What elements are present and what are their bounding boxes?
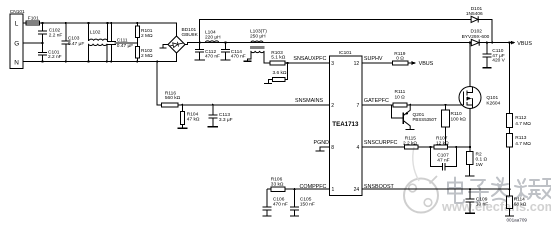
resistor R103	[270, 50, 329, 65]
svg-text:2 MΩ: 2 MΩ	[141, 33, 153, 39]
node VBUS (main)	[509, 41, 532, 47]
svg-text:250 μH: 250 μH	[250, 33, 266, 39]
svg-text:4.7 MΩ: 4.7 MΩ	[515, 141, 531, 147]
wire VBUS divider chain	[509, 43, 511, 114]
capacitor C113	[208, 105, 233, 127]
ground (C110)	[482, 67, 491, 69]
resistor R102	[135, 47, 153, 62]
wire top rail to D101	[200, 19, 471, 42]
svg-text:R113: R113	[515, 135, 526, 141]
svg-text:C103: C103	[68, 35, 80, 41]
svg-text:1W: 1W	[476, 162, 484, 168]
ground (C106)	[263, 215, 272, 217]
wire L rail	[40, 23, 177, 36]
ground (3.6k resistor)	[264, 82, 272, 84]
svg-text:TEA1713: TEA1713	[332, 121, 359, 128]
svg-text:47 kΩ: 47 kΩ	[187, 117, 200, 123]
ground (Q201 collector)	[406, 129, 415, 131]
resistor R115	[403, 135, 434, 149]
capacitor C109	[465, 189, 488, 213]
svg-text:150 nF: 150 nF	[300, 202, 315, 208]
inductor L102 (common-mode choke)	[89, 23, 108, 62]
wire SNSMAINS	[157, 62, 161, 105]
capacitor C102	[38, 23, 62, 43]
wire SNSBOOST pin 24	[362, 188, 509, 190]
wire COMPPFC pin 1	[285, 188, 329, 190]
watermark plug icon	[404, 147, 438, 213]
svg-text:0.1 Ω: 0.1 Ω	[476, 157, 488, 163]
ground (PGND pin)	[316, 150, 325, 152]
svg-text:CN101: CN101	[10, 9, 25, 15]
svg-text:12: 12	[354, 61, 360, 67]
resistor R111	[393, 89, 461, 107]
capacitor C105	[290, 189, 315, 216]
svg-text:N: N	[14, 59, 19, 66]
capacitor C114	[220, 43, 245, 60]
svg-text:10 Ω: 10 Ω	[395, 95, 406, 101]
svg-text:33 kΩ: 33 kΩ	[271, 181, 284, 187]
node VBUS (from SUPHV)	[412, 61, 434, 67]
char dian	[448, 178, 464, 204]
svg-text:L102: L102	[90, 29, 101, 35]
svg-text:2 MΩ: 2 MΩ	[141, 53, 153, 59]
svg-text:001aa709: 001aa709	[507, 218, 528, 223]
resistor R114	[505, 189, 527, 216]
svg-text:0.47 μF: 0.47 μF	[68, 41, 84, 47]
wire Q101 drain to rail	[469, 43, 471, 87]
svg-text:K2604: K2604	[486, 100, 500, 106]
svg-text:470 nF: 470 nF	[231, 54, 246, 60]
inductor L103 (PFC choke with aux winding)	[244, 28, 271, 63]
resistor R119	[393, 51, 412, 65]
svg-text:220 μH: 220 μH	[205, 34, 221, 40]
diode D101 1N5406	[466, 6, 492, 42]
svg-text:470 nF: 470 nF	[205, 54, 220, 60]
wire PGND pin 8 and ground	[316, 147, 330, 151]
svg-text:R111: R111	[395, 89, 406, 95]
ground (bridge DC minus)	[160, 45, 169, 48]
svg-text:VBUS: VBUS	[419, 61, 434, 67]
wire N rail	[23, 53, 177, 62]
diode D102 BYV29X-600	[462, 29, 510, 46]
svg-text:24: 24	[354, 187, 360, 193]
svg-text:1N5406: 1N5406	[466, 11, 483, 17]
wire Q101 source to R2 and SNSCURPFC	[469, 108, 471, 151]
resistor R106	[267, 177, 285, 192]
svg-text:68 kΩ: 68 kΩ	[514, 202, 527, 208]
wire SUPHV pin 12	[362, 62, 392, 64]
watermark chinese characters	[448, 178, 551, 204]
svg-text:5.1 kΩ: 5.1 kΩ	[271, 55, 285, 61]
wire L from CN101 to fuse	[23, 22, 26, 24]
svg-text:BYV29X-600: BYV29X-600	[462, 34, 490, 40]
svg-text:R2: R2	[476, 151, 482, 157]
svg-text:R112: R112	[515, 115, 526, 121]
svg-text:PGND: PGND	[314, 140, 330, 146]
capacitor C110	[482, 43, 505, 68]
svg-text:2.2 kΩ: 2.2 kΩ	[403, 140, 417, 146]
ground (C105)	[290, 215, 299, 217]
resistor R113	[507, 134, 532, 190]
svg-text:10 nF: 10 nF	[476, 201, 488, 207]
svg-text:SNSMAINS: SNSMAINS	[295, 98, 324, 104]
svg-text:47 nF: 47 nF	[437, 158, 449, 164]
resistor R104	[177, 105, 200, 129]
svg-text:3.6 kΩ: 3.6 kΩ	[273, 70, 287, 76]
svg-text:L: L	[15, 21, 19, 28]
wire SNSCURPFC pin 4	[362, 146, 404, 148]
wire G	[23, 42, 43, 44]
svg-text:F101: F101	[28, 15, 39, 21]
resistor R116	[162, 90, 330, 107]
svg-text:470 nF: 470 nF	[273, 202, 288, 208]
fuse F101	[26, 15, 40, 25]
ground (R114)	[505, 215, 514, 217]
svg-text:SUPHV: SUPHV	[364, 56, 383, 62]
svg-text:3: 3	[331, 61, 334, 67]
wire GATEPFC pin 7	[362, 104, 393, 106]
wire DC rail after bridge	[185, 43, 471, 45]
ground (R2)	[465, 175, 475, 177]
capacitor C101	[38, 43, 62, 62]
svg-text:0 Ω: 0 Ω	[396, 56, 404, 62]
svg-text:SNSAUXPFC: SNSAUXPFC	[293, 56, 326, 62]
resistor R2	[465, 151, 488, 176]
resistor R101	[135, 23, 153, 47]
svg-text:560 kΩ: 560 kΩ	[165, 95, 181, 101]
ground (C114)	[220, 59, 230, 61]
char you	[541, 179, 551, 199]
connector CN101	[10, 9, 25, 69]
capacitor C106	[263, 189, 288, 216]
svg-text:7: 7	[357, 103, 360, 109]
svg-text:www.elecfans.com: www.elecfans.com	[441, 199, 551, 214]
svg-text:4.7 MΩ: 4.7 MΩ	[515, 121, 531, 127]
ground (L103 aux winding)	[244, 60, 252, 62]
wire R101/R102 midpoint to C111	[115, 42, 138, 44]
ground (C113)	[208, 126, 218, 128]
inductor L104	[205, 29, 221, 42]
ground (R104)	[177, 127, 187, 129]
ground (C109)	[465, 212, 475, 214]
capacitor C107	[431, 147, 457, 170]
svg-text:G: G	[14, 40, 19, 47]
capacitor C103	[61, 23, 84, 62]
IC IC101 TEA1713	[329, 50, 362, 196]
svg-text:4: 4	[357, 145, 360, 151]
resistor R107	[434, 135, 470, 149]
svg-text:1: 1	[332, 187, 335, 193]
char zi	[469, 180, 488, 202]
svg-text:GBU8K: GBU8K	[182, 32, 199, 38]
capacitor C111	[107, 23, 133, 62]
svg-text:R110: R110	[451, 111, 462, 117]
svg-text:2: 2	[331, 103, 334, 109]
svg-text:IC101: IC101	[339, 50, 352, 56]
svg-text:420 V: 420 V	[492, 58, 505, 64]
transistor Q101 K2604 MOSFET	[459, 87, 501, 109]
svg-text:PBSS5350T: PBSS5350T	[413, 117, 437, 122]
svg-text:2.2 nF: 2.2 nF	[48, 54, 62, 60]
ground (C112)	[195, 59, 205, 61]
svg-text:GATEPFC: GATEPFC	[364, 98, 389, 104]
svg-text:2.2 nF: 2.2 nF	[49, 32, 63, 38]
char shao	[515, 179, 540, 199]
svg-text:SNSCURPFC: SNSCURPFC	[364, 140, 398, 146]
svg-text:8: 8	[331, 145, 334, 151]
transistor Q201 PBSS5350T	[391, 105, 437, 130]
char fa	[492, 178, 509, 202]
resistor R110	[442, 105, 467, 145]
svg-text:100 kΩ: 100 kΩ	[451, 117, 467, 123]
resistor R112	[507, 113, 532, 133]
bridge rectifier BD101	[168, 27, 199, 53]
svg-text:Q101: Q101	[486, 95, 498, 101]
capacitor C112	[195, 43, 220, 60]
svg-text:3.3 μF: 3.3 μF	[219, 117, 233, 123]
svg-text:12 kΩ: 12 kΩ	[436, 140, 449, 146]
resistor 3.6k (SNSAUXPFC divider)	[264, 63, 287, 83]
svg-text:D102: D102	[471, 29, 483, 35]
svg-text:VBUS: VBUS	[517, 41, 532, 47]
svg-text:0.47 μF: 0.47 μF	[117, 43, 133, 49]
